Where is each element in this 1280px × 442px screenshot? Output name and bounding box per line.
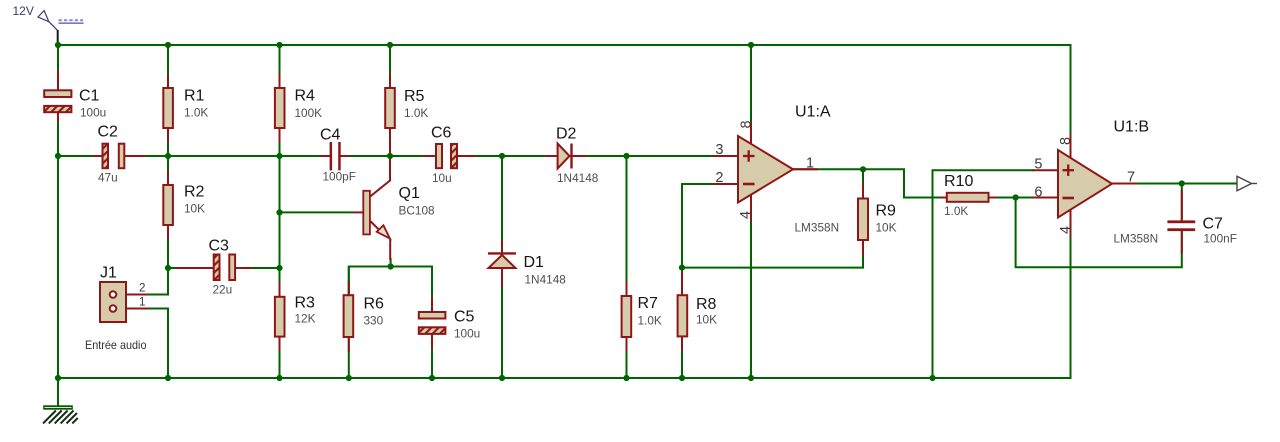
svg-text:1.0K: 1.0K	[944, 204, 968, 218]
svg-text:8: 8	[739, 120, 755, 128]
junction dots top rail	[55, 42, 754, 48]
capacitor C5 (electrolytic)	[419, 312, 446, 334]
wire U1:A pin8 drop from rail	[750, 45, 752, 122]
svg-text:R5: R5	[404, 88, 425, 105]
svg-text:7: 7	[1127, 170, 1135, 186]
svg-text:8: 8	[1058, 137, 1074, 145]
capacitor C3 pins	[176, 267, 252, 269]
svg-text:2: 2	[715, 170, 723, 186]
svg-text:C6: C6	[431, 125, 452, 142]
resistor R4 pins	[279, 73, 281, 143]
junction dot Q1 base node	[276, 209, 282, 215]
svg-text:Entrée audio: Entrée audio	[85, 338, 147, 352]
svg-text:10K: 10K	[184, 202, 205, 216]
svg-text:R2: R2	[184, 184, 205, 201]
resistor R8	[678, 295, 688, 336]
svg-text:C1: C1	[79, 88, 100, 105]
svg-text:C4: C4	[320, 127, 341, 144]
capacitor C6 pins	[423, 155, 476, 157]
svg-text:C5: C5	[454, 309, 475, 326]
svg-text:1: 1	[806, 156, 814, 172]
capacitor C4 (ceramic)	[330, 142, 341, 170]
resistor R3 pins	[279, 282, 281, 351]
wire R4/R3 column x=279.5	[279, 45, 281, 378]
svg-text:10u: 10u	[432, 171, 452, 185]
svg-text:100K: 100K	[295, 106, 323, 120]
resistor R5	[385, 88, 395, 128]
resistor R1 pins	[167, 73, 169, 143]
svg-text:R1: R1	[184, 88, 205, 105]
svg-text:Q1: Q1	[399, 185, 420, 202]
wire U1:B feedback net C7	[1016, 184, 1182, 268]
output terminal arrow	[1237, 176, 1257, 190]
svg-text:100pF: 100pF	[323, 170, 356, 184]
op-amp U1:A output pin 1	[793, 168, 818, 170]
svg-text:10K: 10K	[876, 221, 897, 235]
wire R6 column to bottom rail	[348, 267, 350, 379]
svg-text:5: 5	[1034, 157, 1042, 173]
resistor R6	[344, 295, 354, 337]
capacitor C7 (ceramic)	[1167, 220, 1195, 231]
svg-text:10K: 10K	[696, 313, 717, 327]
resistor R2	[163, 185, 173, 225]
svg-text:LM358N: LM358N	[795, 221, 840, 235]
svg-text:LM358N: LM358N	[1114, 232, 1159, 246]
op-amp U1:A pin 4 segment	[750, 193, 752, 222]
svg-text:4: 4	[1058, 226, 1074, 234]
resistor R10 (horizontal)	[947, 193, 989, 202]
wire R1/R2 column x=168	[141, 45, 168, 295]
svg-text:D2: D2	[556, 126, 577, 143]
diode D2	[558, 144, 572, 169]
diode D1 pins	[501, 240, 503, 288]
svg-text:330: 330	[364, 314, 384, 328]
svg-text:C3: C3	[209, 238, 230, 255]
wire U1:A output to R10	[793, 169, 941, 197]
wire R8 column to bottom rail	[681, 268, 683, 378]
capacitor C1 pins	[57, 70, 59, 122]
svg-text:U1:B: U1:B	[1114, 119, 1150, 136]
svg-text:1N4148: 1N4148	[525, 273, 567, 287]
junction dot U1:A output node	[860, 166, 866, 172]
svg-text:R8: R8	[696, 296, 717, 313]
svg-text:100u: 100u	[80, 106, 106, 120]
capacitor C5 pins	[431, 297, 433, 349]
svg-text:1N4148: 1N4148	[557, 171, 599, 185]
wire Q1 base row y=212.4	[280, 211, 354, 213]
op-amp U1:B	[1058, 150, 1112, 218]
wire C5 column to bottom rail	[431, 267, 433, 379]
power terminal symbol	[38, 11, 58, 45]
wire U1:A pin4 to bottom rail	[750, 222, 752, 378]
capacitor C6 (electrolytic)	[436, 144, 457, 168]
wire left column C1/ground x=58	[57, 45, 59, 378]
wire U1:B pin5 to bottom rail	[933, 170, 1035, 378]
svg-text:12V: 12V	[13, 4, 34, 18]
diode D1	[488, 253, 516, 268]
connector J1 pin wires	[116, 295, 148, 309]
svg-text:BC108: BC108	[399, 204, 436, 218]
diode D2 pins	[545, 155, 587, 157]
junction dots C3 node	[165, 265, 283, 271]
wire main signal row y=156	[58, 155, 714, 157]
resistor R4	[275, 88, 285, 128]
wire D1 column x=502	[501, 156, 503, 378]
resistor R7	[622, 296, 632, 337]
wire R5 column x=390	[389, 45, 391, 160]
wire bottom ground rail up to U1:B pin4	[58, 237, 1071, 378]
svg-text:C7: C7	[1203, 216, 1224, 233]
svg-text:U1:A: U1:A	[795, 104, 831, 121]
svg-text:2: 2	[139, 282, 145, 295]
capacitor C7 pins	[1181, 190, 1183, 254]
op-amp U1:A	[738, 136, 793, 203]
svg-text:47u: 47u	[98, 171, 118, 185]
wire U1:B output row	[1112, 183, 1237, 185]
wire U1:A feedback net pin2 R8 R9	[682, 169, 863, 267]
svg-text:1.0K: 1.0K	[404, 106, 428, 120]
transistor Q1 base bar	[363, 191, 370, 235]
wire R7 column x=626.5	[626, 156, 628, 378]
wire R10 right to U1:B pin6	[990, 197, 1035, 199]
svg-text:100u: 100u	[454, 327, 480, 341]
resistor R2 pins	[167, 170, 169, 240]
wire top supply rail down to U1:B pin8	[58, 45, 1071, 133]
junction dots bottom rail	[55, 375, 936, 381]
resistor R6 pins	[348, 281, 350, 352]
resistor R9 pins	[862, 183, 864, 255]
junction dots signal row	[55, 153, 630, 159]
wire C3 row y=268	[168, 267, 280, 269]
op-amp U1:B pin 8 segment	[1070, 133, 1072, 159]
resistor R1	[163, 88, 173, 128]
capacitor C2 (electrolytic)	[103, 144, 125, 169]
capacitor C2 pins	[93, 155, 145, 157]
wire J1 pin1 to bottom rail	[141, 309, 168, 379]
svg-text:R10: R10	[944, 173, 973, 190]
power terminal dashed annotation	[59, 20, 84, 23]
svg-text:1.0K: 1.0K	[638, 314, 662, 328]
resistor R5 pins	[389, 73, 391, 158]
svg-text:R4: R4	[295, 88, 316, 105]
svg-text:22u: 22u	[213, 283, 233, 297]
op-amp U1:B output pin 7	[1112, 183, 1137, 185]
svg-text:C2: C2	[98, 124, 119, 141]
transistor Q1 emitter pin	[370, 221, 379, 230]
op-amp U1:A input pins 3 and 2	[713, 156, 738, 184]
svg-text:1.0K: 1.0K	[184, 106, 208, 120]
op-amp U1:B input pins 5 and 6	[1033, 170, 1058, 197]
resistor R10 pins	[940, 197, 996, 199]
junction dot R8 feedback node	[679, 265, 685, 271]
resistor R3	[275, 297, 285, 337]
op-amp U1:A pin 8 segment	[750, 122, 752, 146]
svg-text:R6: R6	[364, 296, 385, 313]
resistor R7 pins	[626, 281, 628, 352]
op-amp U1:B pin 4 segment	[1070, 210, 1072, 237]
resistor R9	[858, 199, 868, 241]
svg-text:R9: R9	[876, 203, 897, 220]
capacitor C3 (electrolytic)	[214, 255, 235, 281]
svg-text:100nF: 100nF	[1204, 232, 1237, 246]
junction dot U1:B pin6 node	[1013, 194, 1019, 200]
resistor R8 pins	[681, 271, 683, 351]
capacitor C1 (electrolytic)	[44, 90, 71, 112]
wire Q1 emitter node to R6 and C5	[349, 267, 432, 301]
junction dot Q1 emitter node	[388, 263, 394, 269]
transistor Q1 collector pin	[370, 157, 390, 197]
connector J1	[100, 282, 126, 322]
svg-text:1: 1	[139, 296, 145, 309]
svg-text:J1: J1	[100, 265, 117, 282]
svg-text:12K: 12K	[295, 312, 316, 326]
svg-text:3: 3	[715, 142, 723, 158]
ground symbol	[43, 405, 78, 423]
transistor Q1 base pin	[353, 211, 363, 213]
svg-text:R3: R3	[295, 295, 316, 312]
svg-text:4: 4	[738, 211, 754, 219]
svg-text:6: 6	[1034, 185, 1042, 201]
svg-text:R7: R7	[638, 295, 659, 312]
wire ground stem	[57, 378, 59, 406]
wire Q1 emitter stub	[390, 258, 392, 267]
svg-text:D1: D1	[524, 254, 545, 271]
transistor Q1 emitter arrowhead	[377, 225, 390, 238]
junction dot U1:B output node	[1179, 180, 1185, 186]
capacitor C4 pins	[320, 155, 350, 157]
